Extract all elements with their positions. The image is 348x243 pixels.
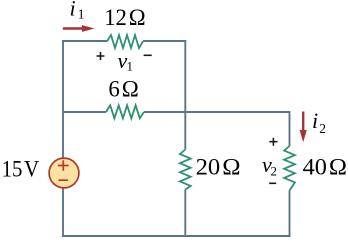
label v1 minus sign [144, 54, 152, 56]
resistor 12-ohm zigzag [107, 35, 143, 48]
label v2 minus sign [269, 182, 276, 184]
resistor 20-ohm zigzag [180, 150, 191, 190]
wire middle horizontal right of 6-ohm [144, 111, 290, 113]
resistor 40-ohm zigzag [284, 146, 295, 191]
wire top horizontal left of 12-ohm [62, 40, 107, 42]
wire left vertical lower [62, 189, 64, 236]
wire bottom horizontal [62, 235, 291, 237]
label v2 plus sign [269, 138, 277, 146]
wire middle horizontal left of 6-ohm [63, 111, 106, 113]
current arrow i1 [63, 27, 83, 29]
svg-text:12 Ω: 12 Ω [104, 5, 146, 31]
svg-text:6 Ω: 6 Ω [108, 77, 138, 103]
svg-text:i: i [312, 108, 318, 133]
svg-text:1: 1 [78, 7, 85, 22]
wire right vertical lower below 40-ohm [289, 191, 291, 238]
svg-text:15 V: 15 V [2, 156, 40, 182]
wire right vertical upper above 40-ohm [289, 111, 291, 146]
svg-text:1: 1 [127, 59, 134, 74]
svg-text:2: 2 [271, 164, 278, 179]
svg-text:40 Ω: 40 Ω [303, 154, 347, 180]
label v1 plus sign [97, 52, 105, 60]
wire top horizontal right of 12-ohm [143, 40, 186, 42]
wire left vertical upper [62, 41, 64, 158]
svg-text:20 Ω: 20 Ω [196, 154, 241, 180]
svg-text:i: i [70, 0, 76, 21]
current arrow i2 [302, 112, 304, 132]
svg-text:2: 2 [319, 121, 326, 136]
wire middle vertical lower below 20-ohm [184, 190, 186, 237]
voltage source plus sign [58, 160, 69, 170]
resistor 6-ohm zigzag [106, 105, 144, 118]
voltage source minus sign [58, 179, 68, 181]
voltage source 15V circle [49, 158, 79, 188]
wire middle vertical upper [184, 40, 186, 150]
